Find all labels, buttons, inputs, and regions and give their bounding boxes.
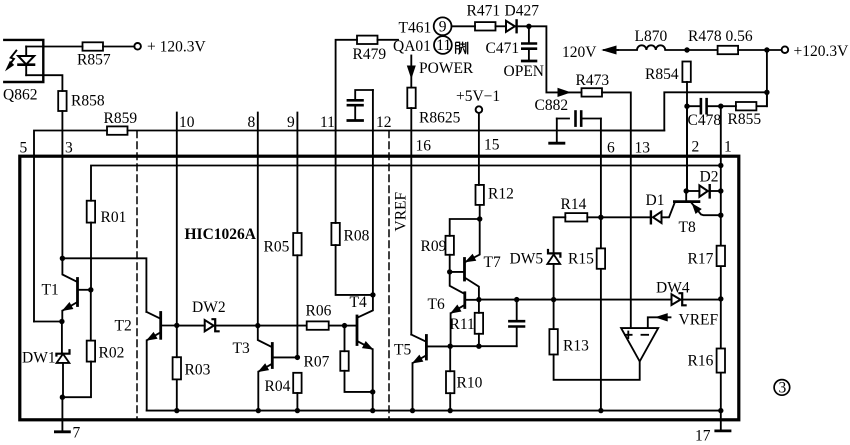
junction dot T1 emitter <box>59 319 64 324</box>
inductor L870 <box>618 45 687 50</box>
terminal +120.3V right <box>782 46 789 53</box>
svg-text:Q862: Q862 <box>3 87 37 104</box>
wire pin9 R05 to base <box>296 255 298 357</box>
wire bus continues right <box>128 130 665 132</box>
zener DW2 <box>177 319 345 331</box>
wire pin6 bus jog up to +120.3V node <box>601 92 767 130</box>
svg-text:R09: R09 <box>421 238 447 255</box>
wire T1 collector to T2 collector <box>62 258 146 312</box>
resistor R17 <box>717 246 725 266</box>
svg-text:R15: R15 <box>568 250 594 267</box>
junction dot T3 base / pin 9 <box>295 355 300 360</box>
junction dot DW5 bottom <box>551 297 556 302</box>
diode D1 <box>651 212 662 224</box>
transistor T6 <box>450 272 479 346</box>
wire arrow to R473 <box>566 91 582 93</box>
svg-text:17: 17 <box>695 427 711 444</box>
svg-text:R01: R01 <box>101 209 127 226</box>
wire 767 down <box>766 50 768 106</box>
wire R14 left end <box>554 216 566 218</box>
svg-text:R855: R855 <box>728 111 762 128</box>
junction dot R10 ground <box>448 408 453 413</box>
wire R8625 down pin 16 <box>410 108 412 335</box>
terminal +5V-1 <box>476 106 483 113</box>
svg-text:POWER: POWER <box>419 60 474 77</box>
capacitor C471 <box>522 26 536 60</box>
junction dot T2 base / pin 10 <box>174 323 179 328</box>
svg-text:DW2: DW2 <box>192 299 226 316</box>
svg-text:HIC1026A: HIC1026A <box>185 226 257 243</box>
svg-text:C471: C471 <box>486 40 520 57</box>
transistor T7 <box>450 219 480 300</box>
wire to R478 <box>687 49 718 51</box>
transistor T5 <box>411 335 450 411</box>
svg-text:C882: C882 <box>535 97 569 114</box>
note circled 3 <box>774 379 790 396</box>
resistor R473 <box>582 88 603 96</box>
svg-text:D2: D2 <box>700 168 719 185</box>
svg-text:D1: D1 <box>646 192 665 209</box>
svg-text:2: 2 <box>692 139 700 156</box>
svg-text:R859: R859 <box>104 110 138 127</box>
wire pin 2 down <box>686 106 688 191</box>
svg-text:12: 12 <box>376 114 392 131</box>
svg-text:9: 9 <box>287 114 295 131</box>
resistor R479 <box>357 36 378 44</box>
label QA01 pin 11 circle <box>434 36 452 54</box>
svg-text:R06: R06 <box>306 303 332 320</box>
junction dot R03 ground <box>174 408 179 413</box>
resistor R854 <box>682 62 690 192</box>
resistor R01 <box>87 201 95 290</box>
optocoupler Q862 <box>4 40 43 82</box>
svg-text:T461: T461 <box>399 19 432 36</box>
svg-text:T1: T1 <box>42 281 59 298</box>
wire circle9 to R471 <box>452 25 476 27</box>
wire bus +120.3V rail: pin5 corner to right corner <box>34 131 107 322</box>
resistor R06 (in wire) <box>307 321 329 329</box>
svg-text:T6: T6 <box>428 296 445 313</box>
svg-text:R07: R07 <box>304 353 330 370</box>
junction dot T4 base node <box>342 323 347 328</box>
transistor T1 <box>62 258 91 321</box>
svg-text:R471: R471 <box>467 3 501 20</box>
diode D427 <box>506 20 517 32</box>
svg-text:+120.3V: +120.3V <box>794 43 850 60</box>
svg-text:T4: T4 <box>350 294 367 311</box>
svg-text:R02: R02 <box>99 345 125 362</box>
wire R858 down to IC pin 3 <box>61 111 63 258</box>
svg-text:R08: R08 <box>344 227 370 244</box>
svg-text:11: 11 <box>320 114 335 131</box>
resistor R8625 <box>407 88 415 109</box>
junction dot D427/C471 <box>526 24 531 29</box>
svg-text:VREF: VREF <box>679 311 719 328</box>
junction dot C478/R855/pin1 <box>718 104 723 109</box>
resistor R13 <box>549 300 639 380</box>
junction dot R08 / pin 12 <box>370 292 375 297</box>
resistor R04 <box>293 373 301 411</box>
resistor R858 <box>58 91 66 111</box>
junction dot at (767,92) <box>764 90 769 95</box>
svg-text:R12: R12 <box>488 185 514 202</box>
ground pin 7 <box>55 397 69 432</box>
POWER arrow down <box>408 56 416 88</box>
label 120V arrow left <box>603 46 618 54</box>
svg-text:C478: C478 <box>688 112 722 129</box>
svg-text:R8625: R8625 <box>419 110 461 127</box>
capacitor C882 <box>557 112 601 126</box>
wire R478 to terminal <box>738 49 782 51</box>
resistor R478 <box>718 46 739 54</box>
wire R14 right to D1 <box>587 216 651 218</box>
resistor R03 <box>173 325 181 410</box>
svg-text:VREF: VREF <box>393 192 410 232</box>
junction dot DW4 cathode / pin1 <box>718 296 723 301</box>
resistor R11 <box>475 300 483 347</box>
diode D2 <box>686 185 721 197</box>
svg-text:D427: D427 <box>505 3 540 20</box>
svg-text:DW5: DW5 <box>510 250 544 267</box>
svg-text:R14: R14 <box>561 196 587 213</box>
junction dot pin7 node <box>60 395 65 400</box>
svg-text:R05: R05 <box>264 238 290 255</box>
transistor T4 <box>345 295 373 392</box>
svg-text:11: 11 <box>436 37 451 54</box>
svg-text:+ 120.3V: + 120.3V <box>147 39 206 56</box>
svg-text:T5: T5 <box>394 341 411 358</box>
wire D427 to corner, down to R473 arrow <box>515 26 558 92</box>
junction dot D2 cathode / pin1 <box>718 188 723 193</box>
svg-text:9: 9 <box>439 19 447 36</box>
resistor R857 <box>83 42 104 50</box>
resistor R08 <box>331 131 373 295</box>
capacitor at pin 12 (top plate hook) <box>348 90 373 120</box>
svg-text:DW4: DW4 <box>656 279 690 296</box>
svg-text:L870: L870 <box>635 28 668 45</box>
svg-text:8: 8 <box>248 114 256 131</box>
arrow into R473 <box>558 89 570 97</box>
op-amp <box>621 328 658 361</box>
junction dot R04 ground <box>295 408 300 413</box>
resistor R859 <box>107 126 128 134</box>
wire pin5 to T1 emitter <box>34 321 62 323</box>
junction dot R11 bottom <box>476 344 481 349</box>
svg-text:T7: T7 <box>484 254 501 271</box>
IC package HIC1026A border <box>20 156 739 420</box>
svg-text:7: 7 <box>73 424 81 441</box>
pin 10 stub <box>176 113 178 326</box>
junction dot rail/pin1 <box>718 163 723 168</box>
svg-text:3: 3 <box>65 139 73 156</box>
junction dot T7 base node <box>447 269 452 274</box>
junction dot T5 base node <box>448 344 453 349</box>
wire R857 to terminal <box>103 46 134 48</box>
svg-text:T3: T3 <box>233 340 250 357</box>
internal ground rail <box>147 410 721 412</box>
junction dot L870/R854 <box>684 47 689 52</box>
junction dot T3 emitter ground <box>256 408 261 413</box>
ground pin 17 <box>716 411 730 431</box>
junction dot at x767 <box>764 47 769 52</box>
wire R471 to D427 <box>496 25 506 27</box>
terminal +120.3V left <box>134 43 141 50</box>
svg-text:3: 3 <box>779 379 787 396</box>
capacitor C478 <box>687 99 721 113</box>
svg-text:16: 16 <box>416 137 432 154</box>
svg-text:5: 5 <box>20 139 28 156</box>
transistor T8 <box>674 191 720 215</box>
wire Q862 top to R857 <box>26 46 82 48</box>
wire R473 to pin 13 <box>602 92 631 328</box>
junction dot T1 base <box>88 287 93 292</box>
zener DW1 <box>56 322 69 398</box>
junction dot R12 bottom <box>477 216 482 221</box>
resistor R09 <box>446 236 454 272</box>
resistor R12 <box>476 185 484 219</box>
svg-text:6: 6 <box>607 140 615 157</box>
svg-text:+5V−1: +5V−1 <box>456 88 500 105</box>
junction dot cap top <box>514 297 519 302</box>
internal supply rail <box>91 166 721 201</box>
junction dot T1 collector <box>60 256 65 261</box>
svg-text:QA01: QA01 <box>393 38 431 55</box>
wire pin 1 down <box>720 106 722 410</box>
svg-text:T8: T8 <box>679 219 696 236</box>
junction dot R14/R15 <box>598 215 603 220</box>
junction dot T5 emitter ground <box>410 408 415 413</box>
junction dot T4 emitter ground <box>370 408 375 413</box>
svg-text:R17: R17 <box>688 250 714 267</box>
svg-text:13: 13 <box>635 140 651 157</box>
resistor R14 <box>565 213 587 221</box>
zener DW5 <box>547 217 560 299</box>
transistor T3 <box>258 326 298 411</box>
ground of C882 <box>550 119 564 144</box>
svg-text:1: 1 <box>724 139 732 156</box>
svg-text:R10: R10 <box>457 374 483 391</box>
resistor R07 <box>340 326 372 392</box>
resistor R05 (on pin 9 line) <box>293 233 301 255</box>
svg-text:OPEN: OPEN <box>504 63 544 80</box>
svg-text:R478 0.56: R478 0.56 <box>688 28 753 45</box>
resistor R15 (on pin 6 line) <box>597 248 605 268</box>
junction dot T4 emitter / R07 <box>370 389 375 394</box>
svg-text:R11: R11 <box>450 316 475 333</box>
transistor T2 <box>146 312 176 411</box>
resistor R855 <box>721 92 767 110</box>
dashed partition line left <box>136 131 138 420</box>
wire R479 right <box>378 39 399 41</box>
svg-text:T2: T2 <box>115 318 132 335</box>
svg-text:120V: 120V <box>562 44 597 61</box>
svg-text:R03: R03 <box>185 362 211 379</box>
svg-text:R854: R854 <box>645 66 679 83</box>
pin 9 stub <box>296 113 298 234</box>
junction dot pin1 ground rail <box>718 408 723 413</box>
op-amp minus input wire with VREF arrow <box>648 314 671 328</box>
label T461 pin 9 circle <box>434 17 452 35</box>
svg-text:15: 15 <box>484 137 500 154</box>
svg-text:R473: R473 <box>576 72 610 89</box>
wire D1 to T8 base <box>662 202 675 217</box>
junction dot DW2 wire / pin 8 <box>255 323 260 328</box>
capacitor (T5 base - node A) <box>509 300 524 347</box>
junction dot T8 emitter / pin1 <box>718 213 723 218</box>
wire T5 base node right <box>450 345 517 347</box>
wire T4 emitter to ground rail <box>372 392 374 411</box>
ground bar of pin12 capacitor <box>348 119 363 122</box>
resistor R471 <box>475 22 496 30</box>
svg-text:R479: R479 <box>353 46 387 63</box>
dashed partition line right (VREF) <box>388 131 390 420</box>
resistor R16 <box>717 349 725 373</box>
wire node A right <box>479 299 672 301</box>
pin glyph 脚 hand-drawn <box>456 42 468 55</box>
junction dot R15 ground <box>598 408 603 413</box>
svg-text:R857: R857 <box>77 51 111 68</box>
resistor R02 <box>63 290 95 397</box>
svg-text:R858: R858 <box>71 92 105 109</box>
pin 8 stub <box>257 113 259 326</box>
ground bar of C471 <box>522 60 536 63</box>
wire C882 right to pin 6 <box>600 119 602 411</box>
svg-text:R04: R04 <box>265 378 291 395</box>
wire R12 node to R09 <box>450 219 480 236</box>
wire R479 corner to pin 11 <box>336 40 357 131</box>
wire pin 12 down <box>372 90 374 295</box>
svg-text:R16: R16 <box>688 352 714 369</box>
svg-text:R13: R13 <box>563 337 589 354</box>
resistor R10 <box>446 346 454 410</box>
junction dot T8 collector / D2 anode / pin2 <box>684 188 689 193</box>
wire Q862 bottom to R858 <box>26 75 62 91</box>
svg-text:DW1: DW1 <box>22 349 56 366</box>
wire +5V-1 down pin 15 <box>478 113 480 185</box>
svg-text:10: 10 <box>179 114 195 131</box>
junction dot T6 base / T7 collector <box>476 297 481 302</box>
zener DW4 <box>672 293 721 305</box>
junction dot R854/C478 <box>684 104 689 109</box>
